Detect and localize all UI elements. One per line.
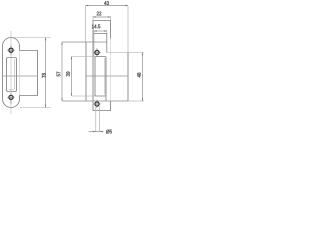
left view: dim 78 extension lines: [13, 38, 51, 108]
right view: latch cutout: [95, 57, 106, 97]
left view: dim 78 line: [45, 38, 47, 108]
left view: box tab: [20, 51, 38, 96]
dim text 78: [42, 73, 46, 78]
right view: hidden plate edge behind wing: [110, 39, 112, 101]
dim 22: [93, 16, 111, 18]
dim text 39: [66, 72, 70, 77]
right view: cutout inner fold line: [104, 58, 106, 95]
arrowheads: [45, 5, 143, 132]
dim text diameter 5: [106, 130, 112, 134]
left view: latch cutout: [7, 58, 17, 92]
right view: outer outline: [93, 21, 128, 111]
dim 39 line: [71, 57, 73, 97]
dim 14.5: [94, 30, 107, 32]
right view: top hole: [93, 48, 101, 57]
left view: bottom screw hole: [7, 93, 15, 104]
dim text 57: [57, 72, 61, 77]
dim 57 line: [61, 42, 63, 101]
left view: strike plate outline: [3, 38, 20, 108]
dim 22 extension ticks: [93, 16, 111, 21]
dim text 48: [137, 73, 141, 78]
extensions for dim 39: [72, 56, 96, 58]
left view: top screw hole: [7, 45, 15, 55]
left view: cutout inner fold line: [9, 59, 15, 90]
dimension texts (Liberation Sans outlines): [42, 1, 141, 133]
left view: centerline: [10, 31, 12, 114]
right view: cutout edge continuation: [105, 96, 107, 101]
left view: box midline: [3, 75, 38, 77]
right view: wing left edge: [85, 42, 87, 101]
right view: inner top rect: [94, 34, 107, 53]
dia 5 extension lines: [96, 106, 100, 132]
dim 48 line: [142, 53, 144, 102]
right view: wing top/bottom edges with extensions: [62, 41, 107, 43]
dim 43 at top: [86, 5, 129, 7]
right view: inner rect left edge: [93, 34, 95, 57]
dim text 43: [104, 1, 109, 5]
extension for dim 48: [107, 52, 144, 54]
right view: box midline: [86, 75, 128, 77]
dim 14.5 extension ticks: [94, 30, 107, 33]
dim text 14.5: [92, 25, 100, 29]
left view: hidden plate edge behind box: [19, 51, 21, 95]
right view: bottom hole: [93, 100, 101, 109]
dim text 22: [97, 12, 102, 16]
